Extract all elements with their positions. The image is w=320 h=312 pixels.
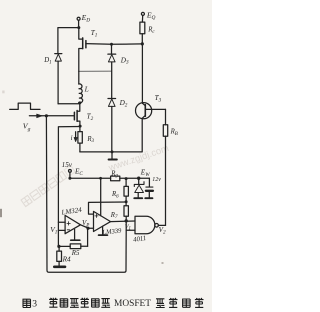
resistor R7 [124,202,128,221]
terminal EC 15v [69,170,72,179]
resistor RB [163,109,167,225]
node R6 top [125,177,128,180]
wire Vg node to T2 gate [46,115,74,117]
svg-text:L: L [84,85,89,94]
scan smudge left edge [0,209,2,217]
wire T1 source down to inductor [78,71,80,84]
wire reference to comparator + input [89,202,127,214]
resistor R3 [78,126,82,152]
watermark: diagonal chinese site text left-middle [21,165,75,206]
svg-text:3: 3 [32,299,37,310]
wire V1 node to second gate input [126,221,135,230]
nand gate 4011 [135,216,158,234]
supply rail 15v [70,177,149,179]
ground under op-amp U1 [71,229,80,240]
resistor R5 [59,244,88,249]
op-amp U1 - input stub [58,229,65,231]
node ground tap [111,150,114,153]
pulse symbol of gate signal [10,103,40,109]
svg-text:R4: R4 [62,256,71,264]
caption char 源 [195,298,204,308]
inductor L [79,84,83,103]
labels (hand written) [23,10,178,263]
svg-text:R5: R5 [71,250,80,257]
caption char 型 [101,299,110,308]
resistor R6 [124,179,128,202]
wire VP down to R5 [87,228,89,246]
wire ED node to D1 branch [58,28,79,54]
op-amp U1 LM324 [65,215,80,233]
comparator U2 LM339 [94,211,111,231]
op-amp U1 + input stub [58,221,65,223]
mosfet T1 [79,28,86,72]
zener diode EW [134,178,144,198]
wire sense line from T2 source to op-amp input [58,127,80,247]
wire comparator output to gate input node [111,220,135,223]
node R6/R7 junction [125,200,128,203]
node junction at ED branch [77,26,80,29]
ground under comparator U2 [99,226,108,235]
node VP output [81,225,90,230]
caption char 驱 [156,299,165,308]
current arrow i [74,132,77,142]
node L bottom / T2 drain [78,101,81,104]
node EC on rail [68,177,71,180]
wire V1 node down to bottom rail [46,116,126,272]
diode D3 [108,44,116,98]
scan speck bottom right [162,262,164,264]
caption char 电 [60,299,68,307]
wire VP to comparator - input [88,227,93,229]
transistor T3 [136,103,166,152]
diode D1 [55,54,62,104]
resistor Rc [140,22,145,44]
ground under driver rail [109,152,117,160]
caption char 电 [182,299,190,307]
diode D2 [108,99,116,152]
caption char 图 [23,299,31,307]
node T2 source [79,125,82,128]
input arrow Vg [29,114,46,118]
node zener top [137,177,140,180]
svg-text:MOSFET: MOSFET [114,299,151,309]
caption char 单 [49,298,58,308]
svg-text:12v: 12v [152,177,161,183]
node op2 supply tap [99,177,102,180]
capacitor C (12v output filter) [145,178,153,198]
terminal ED [77,17,80,27]
wire T1 source to D3/D2 junction (thin) [79,70,112,72]
wire RB bottom to gate output V2 [158,224,165,226]
node Rc bottom [141,42,144,45]
caption char 动 [169,298,178,308]
svg-text:15v: 15v [62,161,73,169]
caption char 斩 [80,298,89,308]
wire T1 gate lead to Rc node [86,43,142,46]
resistor Rg [111,176,120,181]
node D3 top [110,43,113,46]
resistor R4 [57,246,62,265]
node Vg [45,114,48,117]
terminal EQ [141,12,144,22]
wire D1 bottom to L/T2 node [58,103,79,105]
wire Rc node down to T3 collector [141,44,143,103]
watermark speck top-left [2,91,4,94]
paper background [0,0,212,312]
caption char 波 [91,299,99,307]
caption 图3 单电压斩波型 MOSFET 驱动电源 [23,298,204,310]
ground under R4 [54,265,65,268]
node R4/R5 feedback [57,245,60,248]
mosfet T2 [74,103,80,126]
bottom rail of driver stage [80,151,142,153]
svg-text:i: i [71,134,73,142]
node V1 gate input [125,219,128,222]
caption char 压 [70,299,79,308]
wire supply to comparator [100,178,102,216]
